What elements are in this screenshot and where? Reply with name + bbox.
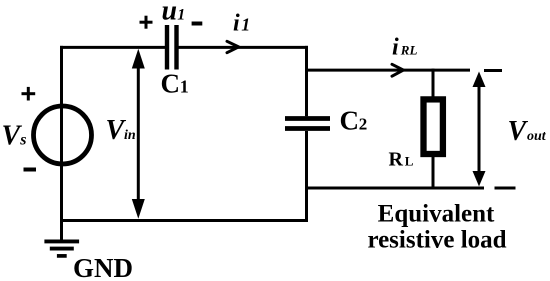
ground symbol: [44, 241, 79, 256]
wire bottom-right horizontal (RL bottom net): [305, 187, 484, 190]
measurement arrow Vout (double-headed vertical): [473, 72, 486, 187]
wire RL top lead: [432, 69, 435, 100]
current arrow iRL (chevron): [392, 64, 403, 76]
wire RL bottom lead: [432, 157, 435, 190]
wire right vertical lower (C2 to bottom nets): [305, 131, 308, 222]
capacitor C2 plates: [285, 119, 330, 129]
minus sign at source bottom: [24, 168, 37, 172]
wire left vertical (Vs branch): [60, 46, 63, 241]
wire right vertical upper (corner to C2): [305, 46, 308, 116]
resistor RL body: [424, 99, 443, 154]
wire C1 to top-right corner: [178, 46, 308, 49]
measurement arrow Vin (double-headed vertical): [132, 49, 145, 219]
wire bottom-left horizontal: [60, 219, 308, 222]
wire top-left horizontal (left branch to C1): [60, 46, 166, 49]
svg-text:resistive load: resistive load: [367, 227, 506, 254]
svg-text:GND: GND: [73, 253, 133, 281]
capacitor C1 plates: [167, 25, 177, 70]
wire mid horizontal (to RL top): [305, 69, 470, 72]
current arrow i1 (chevron): [227, 41, 239, 52]
plus sign at source top: [22, 87, 36, 101]
svg-text:i1: i1: [233, 10, 250, 36]
svg-text:Equivalent: Equivalent: [378, 201, 495, 228]
terminal dash top-right: [484, 69, 502, 72]
plus sign at C1 left: [140, 16, 153, 29]
voltage source VS circle: [34, 106, 92, 164]
terminal dash bottom-right: [495, 187, 516, 190]
minus sign at C1 right: [192, 22, 203, 26]
